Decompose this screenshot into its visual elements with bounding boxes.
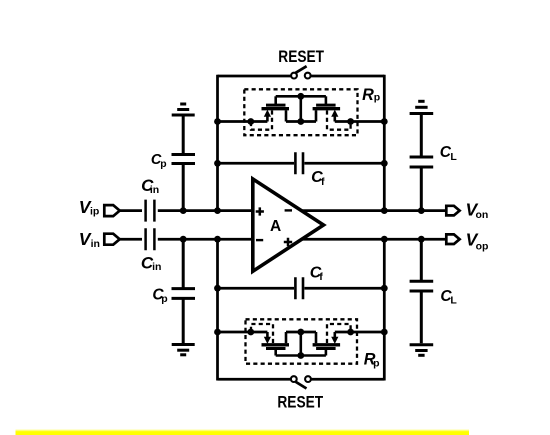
transistor M3 (bottom left) [262, 332, 290, 356]
wire Vip input row [120, 209, 254, 212]
wire Vop output row [299, 238, 446, 241]
node Rp top gate tie [297, 93, 304, 100]
node left rail / Cf bottom [214, 285, 221, 292]
node right rail / Cf top [381, 160, 388, 167]
wire Vin input row [120, 238, 254, 241]
svg-text:p: p [373, 358, 379, 370]
node Rp bottom left [247, 329, 254, 336]
svg-text:L: L [450, 295, 457, 307]
node Rp top center [297, 118, 304, 125]
switch RESET top [291, 66, 311, 78]
node left rail / Rp bottom [214, 329, 221, 336]
wire right rail top [383, 75, 386, 211]
capacitor CL top [410, 115, 434, 211]
pseudo-resistor Rp top : dashed box [244, 89, 357, 135]
capacitor Cf bottom [295, 277, 303, 299]
svg-text:f: f [321, 176, 325, 188]
svg-text:p: p [161, 293, 167, 305]
node Cp top / Vip row [180, 207, 187, 214]
op-amp U1 triangle [253, 179, 324, 271]
terminal Von [446, 206, 459, 216]
terminal Vip [104, 205, 119, 216]
center tie bottom [299, 332, 302, 356]
ground inverted top-right [410, 101, 434, 113]
node Rp top left [247, 118, 254, 125]
wire left rail bottom [216, 239, 219, 380]
svg-text:L: L [450, 151, 457, 163]
capacitor CL bottom [410, 239, 434, 343]
node left rail / Vin row [214, 236, 221, 243]
node left rail / Vip row [214, 207, 221, 214]
svg-text:f: f [319, 271, 323, 283]
node left rail / Rp top [214, 118, 221, 125]
capacitor Cp top [172, 117, 196, 211]
transistor M1 (top left) [262, 96, 290, 121]
wire top Cf row [218, 162, 385, 165]
node Rp bottom gate tie [297, 352, 304, 359]
bulk dashed bottom-left [251, 324, 273, 343]
wire bottom Rp row segments [218, 331, 385, 334]
gate rail top [276, 95, 326, 98]
capacitor Cin top [146, 200, 155, 222]
svg-text:in: in [150, 184, 159, 196]
node right rail / Vop row [381, 236, 388, 243]
node right rail / Rp bottom [381, 329, 388, 336]
center tie top [299, 96, 302, 121]
svg-text:on: on [476, 209, 489, 221]
pseudo-resistor Rp bottom : dashed box [246, 319, 358, 363]
wire top loop right segment [311, 75, 385, 78]
capacitor Cf top [295, 152, 303, 174]
gate rail bottom [276, 354, 326, 357]
wire right rail bottom [383, 239, 386, 380]
svg-text:op: op [476, 240, 489, 252]
svg-text:in: in [152, 261, 161, 273]
op-amp + output sign (bottom-right) [284, 238, 292, 246]
svg-text:A: A [270, 218, 281, 235]
ground bottom-right [410, 345, 434, 356]
wire top loop left segment [218, 75, 292, 78]
transistor M2 (top right) [313, 96, 341, 121]
switch RESET bottom [291, 376, 311, 388]
wire left rail top [216, 75, 219, 211]
node right rail / Cf bottom [381, 285, 388, 292]
node CL top / Von row [418, 207, 425, 214]
capacitor Cp bottom [172, 239, 196, 343]
wire top Rp row segments [218, 120, 385, 123]
op-amp + input sign (top-left) [256, 207, 264, 215]
node left rail / Cf top [214, 160, 221, 167]
ground inverted top-left [172, 104, 195, 115]
terminal Vin [104, 234, 119, 245]
node CL bottom / Vop row [418, 236, 425, 243]
wire bottom loop right segment [311, 378, 384, 381]
node Cp bottom / Vin row [180, 236, 187, 243]
terminal Vop [446, 234, 459, 244]
svg-text:in: in [91, 238, 100, 250]
node right rail / Von row [381, 207, 388, 214]
node Rp bottom center [297, 329, 304, 336]
op-amp - output sign (top-right) [285, 209, 292, 211]
wire Von output row [299, 209, 446, 212]
svg-text:p: p [160, 159, 166, 170]
svg-text:R: R [362, 86, 374, 104]
wire bottom loop left segment [218, 378, 292, 381]
highlight bar [16, 429, 470, 435]
wire bottom Cf row [218, 287, 385, 290]
bulk dashed top-right [327, 111, 351, 130]
svg-text:RESET: RESET [278, 48, 324, 66]
svg-text:ip: ip [90, 205, 99, 217]
node Rp bottom right [347, 329, 354, 336]
svg-text:RESET: RESET [277, 393, 323, 411]
bulk dashed bottom-right [327, 324, 351, 343]
bulk dashed top-left [251, 111, 272, 130]
op-amp - input sign (bottom-left) [256, 239, 263, 241]
capacitor Cin bottom [146, 228, 155, 250]
node right rail / Rp top [381, 118, 388, 125]
node Rp top right [347, 118, 354, 125]
ground bottom-left [172, 345, 195, 355]
transistor M4 (bottom right) [313, 332, 341, 356]
svg-text:p: p [374, 92, 380, 104]
